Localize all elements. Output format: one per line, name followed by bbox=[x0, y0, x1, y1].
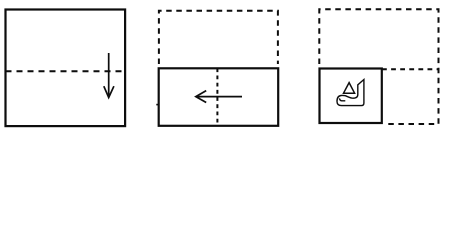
panel 2 vertical fold line (dashed) bbox=[216, 68, 218, 126]
panel 1 square bbox=[6, 10, 126, 127]
panel 2 left-edge nub bbox=[156, 104, 159, 106]
panel 2 solid lower rect bbox=[159, 68, 279, 126]
panel 1 fold line (dashed) bbox=[6, 70, 126, 72]
panel 2 dashed upper rect bbox=[159, 11, 278, 64]
icon inner curl bbox=[339, 98, 345, 100]
panel 1 arrow shaft bbox=[108, 53, 110, 96]
panel 1 arrowhead bbox=[104, 86, 114, 97]
panel 2 arrowhead bbox=[196, 91, 206, 103]
panel 3 dashed outer rect bbox=[319, 9, 438, 124]
panel 3 solid small square bbox=[320, 69, 382, 124]
icon triangle bbox=[344, 83, 355, 94]
panel 2 arrow shaft bbox=[198, 96, 243, 98]
panel 3 fold line (dashed) bbox=[382, 68, 439, 70]
icon swoosh bbox=[337, 80, 364, 106]
